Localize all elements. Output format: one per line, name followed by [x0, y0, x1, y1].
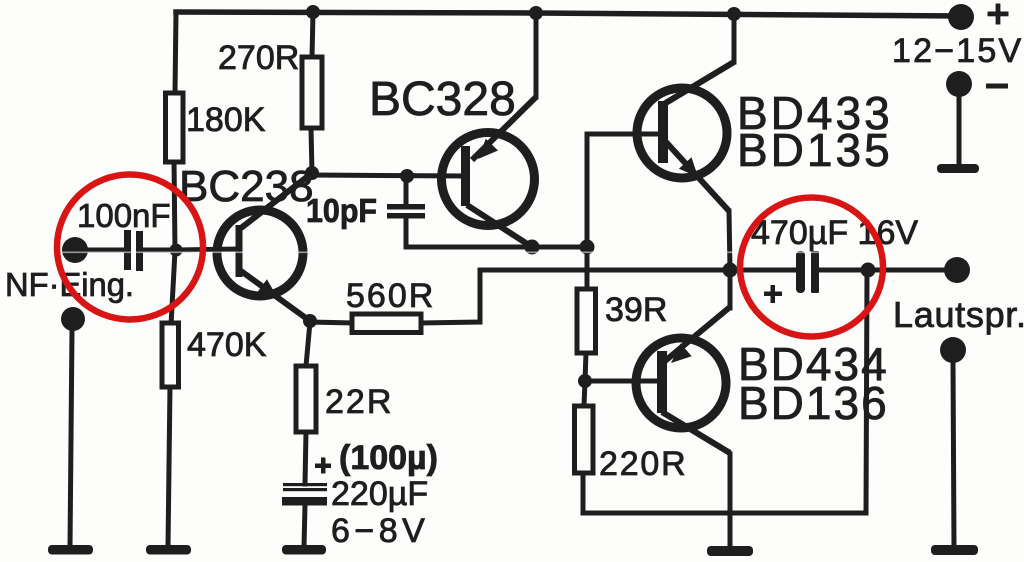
node: input node 100nF/180K/470K/base [170, 244, 183, 257]
node: BD434 base node [578, 374, 592, 388]
wire: rail drop to 180K [175, 12, 176, 93]
wire: BD434 base horizontal [585, 379, 659, 384]
annotation: red circle around 100nF [57, 175, 203, 320]
wire: 220R to bottom bootstrap wire [581, 473, 586, 513]
wire: junction to BC328 base [312, 175, 464, 176]
terminal: NF input [62, 237, 88, 263]
svg-text:10pF: 10pF [306, 192, 377, 229]
wire: 220uF to ground [304, 505, 305, 547]
wire: 560R to output line step [421, 270, 480, 323]
resistor 22R [296, 366, 393, 432]
ground: 220uF [282, 545, 326, 555]
wire: BD433 emitter drop to output [729, 211, 730, 270]
transistor BC238 [179, 162, 314, 321]
transistor BD434 [636, 307, 889, 453]
crease line across scan [0, 252, 1024, 254]
svg-text:22R: 22R [325, 383, 393, 421]
wire: base node down to 220R [584, 381, 585, 406]
svg-text:BC328: BC328 [369, 73, 516, 126]
annotation: red circle around 470uF [740, 198, 883, 337]
wire: BD433 base horizontal [587, 132, 660, 137]
wire: 270R top to rail [312, 12, 313, 58]
terminal: minus supply [946, 71, 1008, 97]
svg-text:470K: 470K [187, 326, 267, 364]
wire: BC328 emitter to rail [534, 13, 539, 97]
resistor 180K [166, 93, 266, 162]
wire: BD434 emitter riser [728, 270, 733, 308]
wire: 39R to BD434 base node [585, 353, 586, 381]
node: rail junction BD433 collector [727, 7, 741, 21]
capacitor C 100nF [77, 197, 171, 271]
wire: 470K to ground [168, 386, 170, 547]
svg-text:180K: 180K [186, 101, 266, 139]
svg-text:100nF: 100nF [77, 197, 171, 234]
resistor 220R [575, 406, 688, 483]
resistor 560R [346, 277, 435, 333]
ground: 470K [146, 545, 191, 555]
resistor 270R [218, 39, 322, 128]
ground: BD434 collector [707, 546, 753, 556]
wire: bottom bootstrap run [583, 272, 867, 513]
svg-text:6−8V: 6−8V [331, 512, 429, 550]
node: bootstrap tap right of 470uF [861, 263, 876, 278]
wire: BD433 collector riser [732, 13, 737, 62]
wire: speaker ground stem [953, 362, 954, 547]
wire: 270R link to junction [311, 128, 312, 173]
terminal: input ground [61, 307, 85, 331]
wire: +12V top supply rail [176, 12, 961, 16]
svg-text:BC238: BC238 [179, 162, 314, 211]
node: 10pF tap on BC328 base [400, 169, 414, 183]
node: bias bus junction 39R [580, 240, 595, 255]
wire: input terminal to 100nF [80, 248, 125, 253]
svg-text:270R: 270R [218, 39, 299, 77]
wire: output line right of 470uF [819, 268, 944, 273]
terminal: +12V supply [892, 4, 1023, 71]
svg-text:220R: 220R [599, 445, 687, 483]
ground: input [48, 545, 93, 555]
node: rail junction BC328 emitter [529, 6, 543, 20]
node: BC328 collector on bus [525, 240, 540, 255]
node: output node emitters [723, 263, 738, 278]
svg-text:560R: 560R [346, 277, 435, 315]
terminal: speaker output [893, 257, 1024, 335]
transistor BD433 [637, 62, 893, 211]
svg-text:39R: 39R [605, 291, 667, 329]
wire: input node down to 470K [171, 251, 175, 325]
node: rail junction 270R [306, 5, 320, 19]
wire: emitter node to 560R [310, 322, 352, 323]
svg-text:(100µ): (100µ) [339, 439, 438, 477]
capacitor C 470uF output electrolytic [751, 214, 918, 303]
wire: bias bus vertical BD433 base / 39R [585, 134, 590, 289]
ground: minus terminal [937, 164, 979, 173]
wire: node to BC238 base [176, 249, 237, 250]
capacitor C 10pF [306, 192, 425, 229]
terminal: speaker return [940, 337, 966, 363]
svg-text:Lautspr.: Lautspr. [893, 294, 1024, 335]
wire: 10pF top stub [404, 176, 409, 205]
wire: 10pF bottom stub [404, 218, 409, 247]
node: BC238 emitter junction [303, 314, 317, 328]
wire: BD434 collector drop to ground [728, 454, 733, 547]
svg-text:470µF 16V: 470µF 16V [751, 214, 918, 252]
wire: output line left of 470uF [480, 268, 797, 273]
ground: speaker [931, 545, 978, 555]
wire: 180K bottom to input node [174, 160, 175, 251]
svg-text:BD136: BD136 [738, 377, 889, 429]
wire: input ground stem [70, 330, 72, 547]
resistor 470K [162, 323, 267, 387]
capacitor C 220uF electrolytic [282, 439, 438, 550]
svg-text:220µF: 220µF [331, 475, 428, 513]
node: BC238 collector junction [305, 166, 319, 180]
wire: 100nF to node [142, 248, 176, 253]
wire: 22R to 220uF [305, 432, 306, 484]
wire: BC328 collector bus [406, 245, 587, 250]
resistor 39R [577, 289, 667, 353]
svg-text:BD135: BD135 [737, 124, 893, 176]
transistor BC328 [369, 73, 536, 247]
wire: emitter node down to 22R [306, 322, 310, 366]
svg-text:12−15V: 12−15V [892, 32, 1023, 70]
wire: minus terminal ground stem [957, 96, 962, 166]
